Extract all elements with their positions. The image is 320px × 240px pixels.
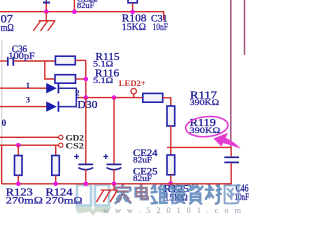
glyph xiu <box>170 185 184 204</box>
capacitor C36 <box>0 57 56 66</box>
svg-text:390KΩ: 390KΩ <box>189 125 220 135</box>
capacitor CE22 lead (x=74.4) <box>73 0 75 12</box>
net line (mauve, right vertical to C46 node) <box>230 0 232 147</box>
svg-text:5.1Ω: 5.1Ω <box>93 75 114 85</box>
wire top rail <box>0 12 164 21</box>
wire R115/R116 right vertical <box>85 60 87 97</box>
glyph wei <box>152 185 167 204</box>
glyph wang <box>225 185 239 203</box>
wire CS2 <box>0 144 59 146</box>
pin 1 wire <box>0 87 47 89</box>
highlight arrow annotation <box>213 133 241 149</box>
svg-text:82uF: 82uF <box>133 154 152 164</box>
capacitor CE25 (polarized, x=114) <box>103 154 121 184</box>
svg-text:100pF: 100pF <box>8 51 35 61</box>
junction dot <box>84 95 89 100</box>
resistor R115 <box>55 56 86 64</box>
wire R119 node to C46 <box>167 146 231 148</box>
junction dot <box>130 10 135 15</box>
junction dot <box>84 77 89 82</box>
wire node 2 to R117 <box>79 97 143 99</box>
svg-text:1: 1 <box>26 80 30 90</box>
junction dot <box>16 182 21 187</box>
resistor R123 (vertical) <box>15 145 23 184</box>
resistor R125 (vertical) <box>167 155 175 184</box>
wire node 2 branch (blue then red) <box>76 97 79 99</box>
resistor R119 (vertical) <box>167 106 175 155</box>
resistor R108 (box clipped at top) <box>128 0 137 12</box>
svg-text:D30: D30 <box>77 100 97 111</box>
junction dot <box>112 95 117 100</box>
wire CS2 left riser to ground rail <box>1 145 3 184</box>
junction dot <box>84 182 89 187</box>
glyph liao <box>206 185 221 204</box>
capacitor CE27 lead (top, x=46) <box>43 0 50 12</box>
svg-text:270mΩ: 270mΩ <box>6 195 43 206</box>
glyph dian <box>136 185 148 200</box>
watermark book banner <box>75 207 112 216</box>
svg-text:82uF: 82uF <box>133 173 152 183</box>
wire GD2 <box>0 136 59 138</box>
svg-text:15KΩ: 15KΩ <box>122 23 146 33</box>
junction dot <box>72 9 77 14</box>
pin CS2 circle <box>59 143 63 147</box>
ground (top left chassis) <box>33 12 55 31</box>
glyph jia <box>115 185 130 204</box>
resistor R116 <box>55 75 86 84</box>
glyph zi <box>188 185 203 204</box>
resistor R117 <box>143 93 171 106</box>
capacitor C46 <box>224 147 239 183</box>
watermark book icon <box>77 185 109 206</box>
junction dot <box>53 182 58 187</box>
svg-text:LED2+: LED2+ <box>119 78 146 88</box>
svg-text:10nF: 10nF <box>235 192 250 202</box>
svg-text:390KΩ: 390KΩ <box>190 97 220 107</box>
svg-text:CS2: CS2 <box>66 142 84 151</box>
svg-text:10nF: 10nF <box>153 23 169 33</box>
resistor R124 (vertical) <box>52 145 60 184</box>
wire cap2 drop <box>113 98 115 165</box>
svg-text:270mΩ: 270mΩ <box>46 195 83 206</box>
junction dot <box>44 9 49 14</box>
pin 3 wire <box>0 106 47 108</box>
sheet border line (left, light gray) <box>1 40 3 145</box>
highlight ellipse annotation <box>185 115 229 139</box>
junction dot on CS2 wire <box>16 143 21 148</box>
svg-text:0: 0 <box>2 119 7 129</box>
wire C36 node T down to R116 <box>45 61 55 79</box>
net line (mauve, far right stub) <box>244 0 246 55</box>
ground (bottom chassis) <box>97 184 118 202</box>
svg-text:mΩ: mΩ <box>1 23 14 34</box>
wire diode cathode link (blue) <box>59 88 76 106</box>
capacitor CE24 (polarized, x=85.8) <box>74 154 93 184</box>
junction dot <box>168 181 173 186</box>
pin LED2+ <box>131 89 136 98</box>
ground rail <box>2 183 232 185</box>
pin GD2 circle <box>59 135 63 139</box>
svg-text:82uF: 82uF <box>77 0 95 10</box>
svg-text:2: 2 <box>75 88 79 97</box>
svg-text:3: 3 <box>26 94 30 104</box>
watermark chinese glyphs <box>115 185 238 204</box>
diode D30 (dual, common cathode) <box>46 83 59 112</box>
wire cap1 drop <box>85 98 87 165</box>
watermark red tint strokes on jia/dian glyphs <box>116 184 148 203</box>
junction dot <box>112 182 117 187</box>
